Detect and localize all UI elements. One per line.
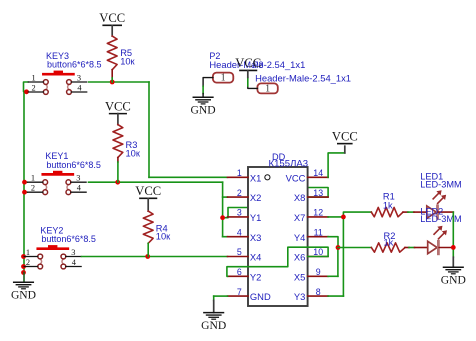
pin 12 X7: [294, 208, 328, 223]
pin 5 X4: [228, 247, 262, 262]
svg-text:VCC: VCC: [135, 184, 161, 198]
pin 7 GND: [228, 287, 271, 302]
pin 1 X1: [228, 168, 262, 183]
pin 2 X2: [228, 188, 262, 203]
svg-text:LED-3MM: LED-3MM: [420, 214, 461, 224]
wire KEY3.3 to R5 to U1 pin1: [89, 82, 228, 177]
wire node KEY1 to U1 pins 2,3,4: [223, 182, 329, 237]
wire U1 pin7 to GND: [214, 296, 228, 312]
resistor R1 1k: [371, 192, 408, 217]
svg-text:Y1: Y1: [250, 212, 261, 223]
svg-text:X2: X2: [250, 192, 261, 203]
svg-text:Header-Male-2.54_1x1: Header-Male-2.54_1x1: [255, 72, 351, 83]
connector P3 Header-Male-2.54_1x1: [248, 60, 351, 95]
button KEY2: [24, 225, 96, 269]
svg-text:X5: X5: [294, 271, 305, 282]
svg-text:VCC: VCC: [286, 172, 306, 183]
svg-text:Y4: Y4: [294, 232, 305, 243]
wire R1 to LED1: [408, 211, 414, 213]
svg-text:GND: GND: [441, 273, 466, 286]
svg-text:1: 1: [265, 84, 270, 95]
pin 3 Y1: [228, 208, 262, 223]
button KEY1: [28, 151, 101, 195]
resistor R3 10k: [105, 99, 141, 182]
svg-text:2: 2: [26, 258, 30, 267]
svg-text:1: 1: [31, 174, 35, 183]
svg-text:3: 3: [76, 174, 80, 183]
wire R2 node to R2: [338, 247, 371, 249]
button KEY3: [28, 51, 101, 95]
svg-text:2: 2: [31, 184, 35, 193]
pin 9 X5: [294, 267, 328, 282]
resistor R4 10k: [135, 184, 171, 256]
junction R5 bottom: [110, 80, 115, 85]
svg-text:4: 4: [237, 227, 242, 237]
junction Y1 feedback: [220, 215, 225, 220]
power VCC U1: [332, 129, 358, 143]
junction R1 node: [341, 215, 346, 220]
svg-text:11: 11: [314, 227, 323, 237]
ground left GND: [11, 273, 36, 302]
svg-text:X4: X4: [250, 252, 261, 263]
junction LED GND: [451, 245, 456, 250]
svg-text:1: 1: [221, 73, 226, 84]
pin 6 Y2: [228, 267, 262, 282]
wire R2 to LED2: [409, 247, 415, 249]
svg-text:14: 14: [313, 168, 323, 178]
ground P2 GND: [191, 97, 216, 116]
wire left rail KEY3.1-KEY3.2-KEY1-KEY2-GND: [24, 82, 29, 273]
svg-text:Y3: Y3: [294, 291, 305, 302]
junction KEY2 pin1: [21, 254, 26, 259]
wire Y2 to X6 loop: [227, 247, 328, 276]
svg-text:13: 13: [313, 188, 323, 198]
pin 8 Y3: [294, 287, 328, 302]
wire LED cathodes to GND: [452, 212, 454, 267]
svg-text:button6*6*8.5: button6*6*8.5: [46, 160, 101, 170]
resistor R5 10k: [99, 11, 135, 82]
svg-text:8: 8: [316, 287, 321, 297]
svg-text:К155ЛА3: К155ЛА3: [269, 158, 309, 169]
svg-text:button6*6*8.5: button6*6*8.5: [41, 234, 96, 244]
svg-text:9: 9: [316, 267, 321, 277]
svg-text:Y2: Y2: [250, 271, 261, 282]
wire X5 up to R1 node: [328, 248, 338, 277]
svg-text:2: 2: [32, 83, 36, 92]
wire KEY1.3 to R3 to node: [89, 181, 223, 183]
svg-text:button6*6*8.5: button6*6*8.5: [47, 60, 102, 70]
svg-text:5: 5: [237, 247, 242, 257]
diode LED2 LED-3MM: [415, 206, 462, 255]
svg-text:10к: 10к: [126, 148, 141, 158]
wire X7/Y3 node to R1: [328, 212, 371, 296]
svg-text:10к: 10к: [120, 57, 135, 67]
svg-text:3: 3: [77, 73, 81, 82]
svg-text:X1: X1: [250, 172, 261, 183]
ground U1 GND: [201, 313, 226, 332]
pin 11 Y4: [294, 227, 328, 242]
resistor R2 1k: [371, 231, 409, 252]
svg-text:3: 3: [237, 208, 242, 218]
svg-text:VCC: VCC: [235, 56, 261, 70]
junction KEY1 pin2: [22, 190, 27, 195]
svg-text:GND: GND: [201, 319, 226, 332]
svg-text:GND: GND: [191, 104, 216, 117]
svg-text:GND: GND: [11, 288, 36, 301]
svg-text:X8: X8: [294, 192, 305, 203]
svg-text:3: 3: [71, 248, 75, 257]
svg-text:1: 1: [237, 168, 242, 178]
svg-text:1k: 1k: [383, 200, 393, 210]
wire Y4 down to R2 node: [328, 237, 338, 248]
svg-text:LED-3MM: LED-3MM: [420, 179, 461, 189]
svg-text:1: 1: [32, 73, 36, 82]
junction R3 bottom: [115, 180, 120, 185]
ground LED GND: [441, 267, 466, 286]
junction R2 node: [336, 245, 341, 250]
junction KEY2 pin2: [21, 264, 26, 269]
pin 4 X3: [228, 227, 262, 242]
power VCC P3: [235, 56, 261, 77]
svg-text:X6: X6: [294, 252, 305, 263]
svg-text:12: 12: [313, 208, 323, 218]
diode LED1 LED-3MM: [414, 172, 462, 220]
wire KEY2.3 to R4 to U1 pin5: [82, 256, 228, 258]
svg-text:X7: X7: [294, 212, 305, 223]
pin 10 X6: [294, 247, 328, 262]
svg-text:VCC: VCC: [105, 99, 131, 113]
svg-text:X3: X3: [250, 232, 261, 243]
svg-text:1: 1: [26, 248, 30, 257]
junction KEY3 pin2: [24, 89, 29, 94]
svg-text:10к: 10к: [156, 231, 171, 241]
wire U1 pin14 to VCC: [328, 146, 345, 177]
op IC DD К155ЛА3 (7400) body: [248, 152, 308, 306]
svg-text:2: 2: [237, 188, 242, 198]
node X1 inversion mark: [265, 175, 270, 180]
junction GND spur: [21, 270, 26, 275]
pin 14 VCC: [286, 168, 328, 183]
svg-text:VCC: VCC: [332, 129, 358, 143]
junction R4 bottom: [145, 254, 150, 259]
svg-text:VCC: VCC: [99, 11, 125, 25]
connector P2 Header-Male-2.54_1x1: [203, 51, 305, 97]
svg-text:6: 6: [237, 267, 242, 277]
svg-text:7: 7: [237, 287, 242, 297]
pin 13 X8: [294, 188, 328, 203]
svg-text:1k: 1k: [384, 238, 394, 248]
svg-text:GND: GND: [250, 291, 271, 302]
junction KEY1 pin1: [22, 180, 27, 185]
